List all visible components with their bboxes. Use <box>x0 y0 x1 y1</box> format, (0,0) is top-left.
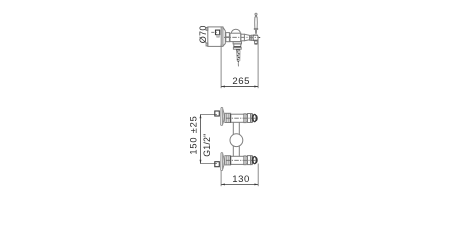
dim 130 arrow left <box>221 183 225 185</box>
dim 150 vertical line <box>200 114 202 163</box>
dim 150 bottom extension <box>200 163 217 165</box>
svg-text:G1/2": G1/2" <box>202 134 212 157</box>
dim 265 arrow right <box>254 86 258 88</box>
dim 265 extension left <box>220 45 222 89</box>
body right section <box>241 34 245 41</box>
supply elbow tail <box>217 35 219 37</box>
dim 130 line <box>221 183 258 185</box>
wall plate cone <box>223 27 225 46</box>
dim 150 arrow top <box>200 114 202 118</box>
coil side lines <box>236 51 239 62</box>
bottom knob <box>251 156 253 164</box>
supply centerline dash <box>211 31 217 33</box>
dim 150 arrow bottom <box>200 160 202 164</box>
svg-text:150 ±25: 150 ±25 <box>188 115 198 154</box>
dim 130 extension left <box>220 171 222 186</box>
top inlet nipple (dark) <box>215 111 220 116</box>
dim 130 arrow right <box>254 183 258 185</box>
valve body <box>230 29 253 41</box>
wall plate face line <box>220 27 222 47</box>
stub squares <box>226 33 230 42</box>
sphere <box>230 134 243 147</box>
coil loops <box>237 52 240 60</box>
dim 150 top extension <box>200 113 217 115</box>
wall plate body <box>206 27 225 47</box>
outlet stack under body <box>233 42 241 50</box>
wall plate left lug top <box>206 28 208 31</box>
wall plate left lug bottom <box>206 43 208 46</box>
top escutcheon <box>221 108 225 126</box>
bottom pipe <box>231 156 244 164</box>
valve body dome <box>231 29 240 33</box>
column above sphere <box>232 122 234 135</box>
svg-text:130: 130 <box>232 174 250 185</box>
dim 265 line <box>221 86 258 88</box>
bottom inlet nipple (dark) <box>215 162 220 167</box>
coil tail <box>237 63 239 66</box>
top knob <box>251 114 253 122</box>
column below sphere <box>232 146 234 157</box>
bottom pipe centerline <box>226 159 258 161</box>
bottom hex nut <box>225 156 231 165</box>
top pipe <box>231 114 244 122</box>
hub tick to extension <box>259 37 260 39</box>
handle hub <box>253 35 258 40</box>
bottom valve stack <box>244 156 252 165</box>
dim 265 arrow left <box>221 86 225 88</box>
top hex nut <box>225 113 231 122</box>
coil tip wedge <box>237 61 239 63</box>
cross knob below hub <box>254 41 257 44</box>
coil top collar (dark) <box>236 49 240 50</box>
lever handle <box>254 13 257 34</box>
bottom escutcheon <box>221 153 225 171</box>
main centerline (top view) <box>224 36 259 38</box>
svg-text:265: 265 <box>232 76 250 87</box>
svg-text:Ø70: Ø70 <box>198 25 208 43</box>
dim 265 extension right <box>257 37 259 88</box>
top pipe centerline <box>226 117 258 119</box>
supply elbow square (dark) <box>216 30 220 34</box>
cone to handle <box>244 34 249 41</box>
dim 130 extension right <box>257 164 259 187</box>
hub connector <box>250 36 252 41</box>
top valve stack <box>244 114 252 123</box>
